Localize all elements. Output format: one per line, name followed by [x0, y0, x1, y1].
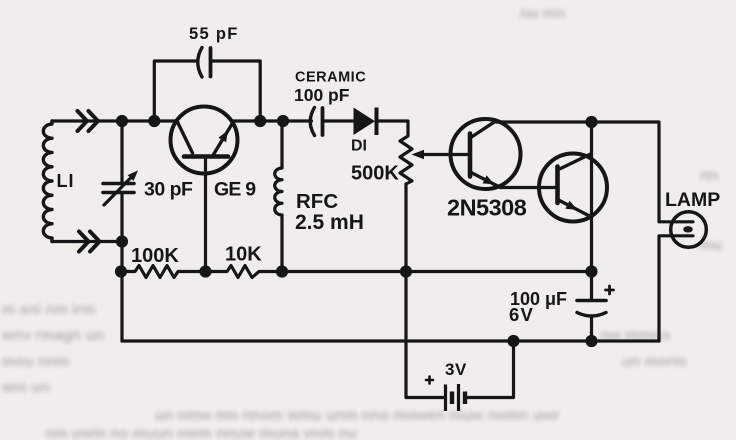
svg-text:nm uwm no muun nwm nnuw muna v: nm uwm no muun nwm nnuw muna vnm nu	[45, 425, 357, 440]
svg-text:100 pF: 100 pF	[294, 85, 350, 105]
wire: Q3 collector-emitter vertical	[590, 122, 593, 272]
transistor Q3 collector	[558, 154, 591, 170]
transistor Q3 circle	[539, 154, 607, 222]
junction dot top rail	[585, 116, 597, 128]
plus sign 100uF	[606, 286, 614, 294]
wire: main wire GE9 to ceramic cap	[232, 119, 312, 122]
transistor Q3 base bar	[555, 167, 560, 204]
svg-text:RFC: RFC	[296, 190, 338, 213]
wire: main wire cap to diode	[323, 119, 354, 122]
svg-text:un morm: un morm	[622, 353, 686, 370]
input arrows bottom chevrons	[79, 232, 100, 252]
transistor Q1 GE9 base bar	[184, 154, 228, 159]
resistor 10K	[206, 266, 283, 278]
lamp filament blob	[683, 226, 693, 232]
svg-text:mou nnm: mou nnm	[2, 353, 70, 370]
wire: lamp bottom lead to bottom bus	[659, 236, 673, 341]
capacitor 55 pF symbol	[198, 48, 202, 78]
potentiometer 500K zigzag	[400, 131, 412, 184]
capacitor 100uF leads	[590, 272, 593, 342]
capacitor 55 pF loop wires	[154, 61, 260, 121]
wire: diode to pot corner	[378, 121, 409, 131]
transistor Q3 emitter	[558, 200, 591, 217]
svg-text:30 pF: 30 pF	[144, 179, 193, 201]
inductor L1	[43, 121, 52, 242]
wire: bottom bus	[122, 339, 659, 342]
capacitor ceramic 100 pF symbol	[310, 108, 314, 136]
junction dot bottom arrow wire	[116, 235, 128, 247]
transistor Q2 collector	[470, 121, 497, 139]
resistor 100K	[121, 266, 206, 278]
svg-text:LAMP: LAMP	[665, 189, 720, 211]
variable capacitor 30 pF plates	[103, 184, 134, 193]
svg-text:10K: 10K	[225, 244, 262, 266]
choke RFC 2.5 mH	[275, 121, 282, 272]
capacitor 100uF plates	[577, 299, 606, 303]
junction dots bottom bus	[507, 335, 519, 347]
lamp circle	[671, 212, 707, 248]
wire: GE9 base lead down	[204, 159, 207, 272]
arrowhead: 30 pF arrow	[128, 171, 138, 181]
svg-text:55 pF: 55 pF	[189, 25, 239, 43]
wire: bus1 middle segment	[282, 270, 592, 273]
svg-text:m ani nm irm: m ani nm irm	[2, 301, 95, 318]
wire: left column x=122	[120, 121, 123, 341]
arrowhead: Q2 emitter	[483, 175, 495, 184]
svg-text:DI: DI	[351, 138, 367, 155]
svg-text:100K: 100K	[131, 245, 179, 267]
transistor Q1 GE9 circle	[171, 107, 238, 174]
svg-text:nn: nn	[700, 167, 718, 184]
wire: bottom L1 wire	[52, 240, 122, 243]
svg-text:2.5 mH: 2.5 mH	[295, 211, 364, 234]
wire: Q2 emitter to Q3 base	[501, 186, 558, 189]
wire: top main wire left segment	[52, 119, 177, 122]
svg-text:LI: LI	[57, 171, 75, 191]
wire: top supply rail to lamp	[497, 122, 673, 222]
transistor Q2 2N5308 circle	[451, 119, 521, 189]
svg-text:un nmw mn nnom wmu unm nno mow: un nmw mn nnom wmu unm nno mowen muw nom…	[155, 407, 559, 424]
plus sign battery	[426, 286, 614, 384]
battery plates	[446, 384, 459, 411]
junction dots bus1	[115, 265, 127, 277]
transistor Q1 GE9 emitter	[214, 122, 234, 155]
svg-text:6V: 6V	[509, 304, 534, 325]
battery right lead	[467, 341, 514, 398]
svg-text:CERAMIC: CERAMIC	[295, 70, 366, 86]
wire: pot wiper to Q2 base	[420, 153, 470, 156]
diode D1	[354, 108, 376, 136]
transistor Q1 GE9 collector	[177, 120, 193, 153]
svg-text:nu mn: nu mn	[520, 5, 565, 22]
input arrows top chevrons	[78, 111, 99, 131]
transistor Q2 emitter	[470, 172, 501, 188]
svg-text:wnv rmagn un: wnv rmagn un	[1, 327, 104, 344]
arrowhead: pot wiper	[412, 150, 425, 160]
junction dots main wire	[116, 115, 128, 127]
lamp base chords	[672, 222, 693, 236]
arrowhead: GE9 emitter	[218, 131, 228, 143]
variable capacitor 30 pF arrow line	[104, 176, 133, 206]
arrowhead: Q3 emitter	[565, 201, 577, 210]
svg-text:500K: 500K	[351, 163, 399, 185]
svg-text:wm un: wm un	[1, 379, 50, 396]
svg-text:2N5308: 2N5308	[447, 195, 527, 221]
svg-text:3V: 3V	[445, 360, 467, 379]
transistor Q2 base bar	[468, 134, 473, 177]
wire: pot bottom to bus and battery left lead	[406, 184, 444, 398]
svg-text:GE 9: GE 9	[214, 179, 256, 201]
